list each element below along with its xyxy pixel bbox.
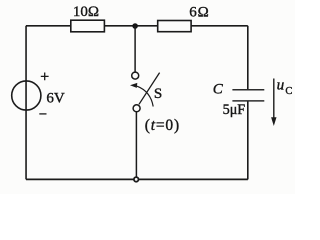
svg-text:C: C xyxy=(213,82,224,98)
svg-text:S: S xyxy=(154,86,162,102)
wire: switch branch upper segment xyxy=(134,26,136,72)
svg-text:(t=0): (t=0) xyxy=(145,117,180,134)
switch S: top terminal (open circle) xyxy=(132,72,139,79)
svg-text:10Ω: 10Ω xyxy=(73,4,99,20)
wire: top rail, right segment xyxy=(191,25,248,27)
wire: left rail xyxy=(25,26,27,180)
wire: right rail lower segment xyxy=(247,102,249,180)
wire: switch branch lower segment xyxy=(135,112,137,179)
svg-text:C: C xyxy=(285,86,292,97)
svg-text:5μF: 5μF xyxy=(223,102,246,118)
resistor R2 (6 ohm) body xyxy=(158,21,191,32)
svg-text:u: u xyxy=(277,78,285,94)
arrow: uC reference direction xyxy=(273,79,275,119)
wire: right rail upper segment xyxy=(247,26,249,89)
label + (plus polarity mark) xyxy=(41,73,49,81)
capacitor C: top plate xyxy=(232,89,264,91)
wire: top rail, left segment xyxy=(26,25,71,27)
label − (minus polarity mark) xyxy=(39,113,46,115)
wire: bottom rail xyxy=(26,178,248,180)
switch S: closing-direction arc arrow xyxy=(137,86,153,106)
node: bottom junction (open circle) xyxy=(134,177,139,182)
switch S: bottom terminal (open circle) xyxy=(133,105,140,112)
wire: top rail, middle segment xyxy=(104,25,157,27)
switch S: blade xyxy=(139,73,160,105)
node: top junction (filled dot) xyxy=(132,23,138,29)
voltage source US (circle) xyxy=(12,81,41,110)
svg-text:6Ω: 6Ω xyxy=(189,4,209,20)
capacitor C: bottom plate xyxy=(232,100,264,102)
svg-text:6V: 6V xyxy=(46,91,65,107)
resistor R1 (10 ohm) body xyxy=(71,20,105,32)
